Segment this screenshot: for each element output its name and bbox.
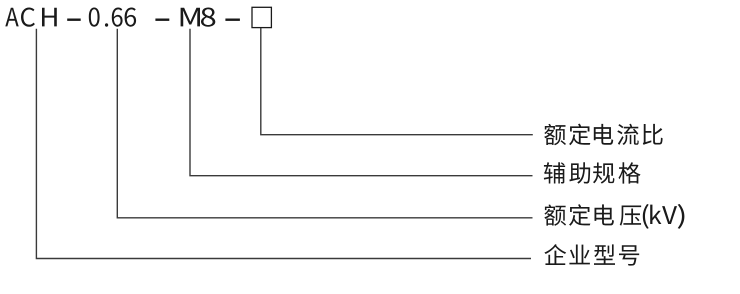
separator dash 2 [155, 19, 169, 21]
model text "ACH" [5, 8, 18, 27]
spec text "M8" [181, 8, 200, 27]
leader line from M8 to 辅助规格 [190, 29, 533, 176]
leader line from 0.66 to 额定电压 [117, 29, 532, 218]
leader line from placeholder box to 额定电流比 [261, 28, 533, 135]
separator dash 1 [67, 19, 81, 21]
placeholder box [252, 7, 271, 27]
voltage text "0.66" [89, 7, 100, 26]
label 企业型号 (enterprise model) [544, 244, 566, 265]
label 额定电流比 (rated current ratio) [544, 124, 566, 145]
label 辅助规格 (auxiliary spec) [544, 162, 565, 183]
label 额定电压(kV) (rated voltage) [544, 204, 566, 225]
separator dash 3 [225, 19, 240, 21]
leader line from ACH to 企业型号 [36, 29, 531, 259]
